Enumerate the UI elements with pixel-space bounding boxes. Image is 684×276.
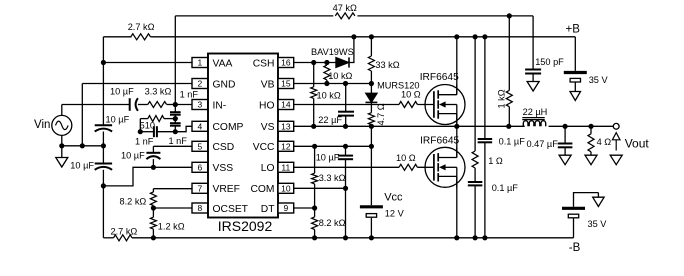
wire Q1 source to VS xyxy=(456,114,458,127)
node bottom rail / 1.2k xyxy=(151,235,156,240)
wire +B rail drop to battery xyxy=(574,37,576,71)
pin name VS xyxy=(261,122,275,133)
svg-text:8: 8 xyxy=(197,203,202,213)
pin box 4 (COMP) xyxy=(192,121,208,131)
svg-text:11: 11 xyxy=(281,163,290,173)
svg-text:IRS2092: IRS2092 xyxy=(218,218,273,234)
wire LO gate lead xyxy=(417,166,434,168)
wire feedback vertical to IN- node xyxy=(174,16,176,105)
label MURS120 xyxy=(377,81,419,91)
svg-text:35 V: 35 V xyxy=(588,219,608,229)
svg-text:Vout: Vout xyxy=(625,136,650,150)
svg-text:IN-: IN- xyxy=(213,100,227,111)
label 1 nF comp lower xyxy=(169,136,188,146)
node bottom rail / DT divider xyxy=(312,235,317,240)
op-amp U1 IRS2092 body xyxy=(208,54,278,218)
svg-text:3.3 kΩ: 3.3 kΩ xyxy=(145,86,172,96)
diode D MURS120 xyxy=(366,93,378,102)
wire Q2 source to -B rail xyxy=(456,176,458,237)
wire -B ground stem xyxy=(597,193,599,198)
capacitor C 22uF bootstrap xyxy=(338,112,354,116)
svg-text:33 kΩ: 33 kΩ xyxy=(375,60,399,70)
pin box 6 (VSS) xyxy=(192,162,208,172)
wire Q2 drain to VS xyxy=(456,126,458,157)
wire C2 link xyxy=(174,119,176,124)
svg-text:10 kΩ: 10 kΩ xyxy=(328,71,352,81)
svg-text:COM: COM xyxy=(250,184,274,195)
svg-text:COMP: COMP xyxy=(213,122,244,133)
capacitor C 10uF CSD xyxy=(146,153,160,159)
svg-text:1: 1 xyxy=(197,58,202,68)
svg-text:3.3 kΩ: 3.3 kΩ xyxy=(319,173,346,183)
wire 8.2k to OCSET node xyxy=(152,206,154,209)
transistor Q1 IRF6645 high-side xyxy=(425,85,465,125)
battery -B 35V xyxy=(562,208,585,218)
label 510 xyxy=(140,121,155,131)
wire DT pin 9 lead xyxy=(294,207,315,209)
capacitor C 10uF input coupling xyxy=(130,98,138,111)
node VCC / DT divider xyxy=(312,144,317,149)
pin number 12 xyxy=(281,142,291,152)
svg-text:LO: LO xyxy=(261,163,275,174)
capacitor C 10uF VCC xyxy=(338,156,353,160)
node COM junction xyxy=(343,186,348,191)
svg-text:-B: -B xyxy=(569,242,581,254)
svg-text:Vcc: Vcc xyxy=(384,191,403,203)
pin number 3 xyxy=(197,100,202,110)
wire divider top xyxy=(314,146,316,173)
node VS / 4.7R xyxy=(369,124,374,129)
svg-text:150 pF: 150 pF xyxy=(535,57,564,67)
label IRF6645 xyxy=(420,135,459,146)
wire 150pF drop xyxy=(532,16,534,70)
node bottom rail / COM xyxy=(343,235,348,240)
svg-text:+B: +B xyxy=(566,24,581,36)
label 1 nF comp upper xyxy=(180,89,199,99)
label 1 nF series xyxy=(135,136,154,146)
wire left rail mid xyxy=(102,132,104,164)
node output / 0.47uF xyxy=(563,124,568,129)
label IRS2092 xyxy=(218,218,273,234)
pin name CSD xyxy=(213,142,235,153)
wire +B rail main segment xyxy=(151,36,576,38)
pin number 5 xyxy=(197,142,202,152)
source Vin sine generator xyxy=(52,115,72,135)
wire VSS pin 6 lead xyxy=(153,166,192,168)
label 2.7 kOhm bottom xyxy=(111,227,138,237)
node VB / bootstrap cap xyxy=(343,81,348,86)
label IRF6645 xyxy=(420,72,459,83)
label 3.3 kOhm DT xyxy=(319,173,346,183)
svg-text:1 nF: 1 nF xyxy=(135,136,154,146)
wire VB pin 15 lead xyxy=(294,83,372,85)
svg-text:10 µF: 10 µF xyxy=(70,160,94,170)
resistor R 47 kOhm xyxy=(335,13,355,19)
label 3.3 kOhm input xyxy=(145,86,172,96)
svg-text:35 V: 35 V xyxy=(589,75,609,85)
wire VAA-to-+B rail left segment xyxy=(103,36,131,38)
svg-text:8.2 kΩ: 8.2 kΩ xyxy=(319,218,346,228)
label 10 uF VCC xyxy=(316,153,340,163)
svg-text:DT: DT xyxy=(261,204,275,215)
svg-text:9: 9 xyxy=(283,203,288,213)
label 150 pF xyxy=(535,57,564,67)
wire to series 1nF xyxy=(140,131,154,133)
svg-text:10 Ω: 10 Ω xyxy=(396,153,416,163)
ground -B battery xyxy=(593,197,604,206)
node VS / half-bridge xyxy=(454,124,459,129)
svg-text:4 Ω: 4 Ω xyxy=(597,137,612,147)
pin name VB xyxy=(261,79,275,90)
wire 4 Ohm to ground xyxy=(590,152,592,155)
pin name IN- xyxy=(213,100,227,111)
wire 10k lower to VS row xyxy=(313,98,315,126)
svg-text:8.2 kΩ: 8.2 kΩ xyxy=(120,196,147,206)
svg-text:6: 6 xyxy=(197,163,202,173)
node left rail / input ground row junction xyxy=(101,143,106,148)
resistor R 8.2 kOhm DT xyxy=(312,217,318,230)
wire VCC cap upper lead xyxy=(345,146,347,155)
label 0.47 uF xyxy=(527,139,559,149)
node +B rail / decoupling cap xyxy=(482,34,487,39)
wire bootstrap cap upper lead xyxy=(345,84,347,112)
node series cap left xyxy=(138,129,143,134)
wire GND pin 2 lead xyxy=(82,83,192,85)
label 22 uH xyxy=(523,107,548,117)
battery +B 35V xyxy=(564,73,587,83)
resistor R 10 kOhm CSH-VS upper lead xyxy=(311,87,317,99)
label 33 kOhm xyxy=(375,60,399,70)
label Vout xyxy=(625,136,650,150)
svg-text:15: 15 xyxy=(281,79,291,89)
svg-text:5: 5 xyxy=(197,142,202,152)
svg-text:47 kΩ: 47 kΩ xyxy=(333,3,357,13)
wire top feedback rail right segment xyxy=(357,15,533,17)
resistor R 510 xyxy=(148,116,164,122)
svg-text:3: 3 xyxy=(197,100,202,110)
svg-text:VCC: VCC xyxy=(253,142,275,153)
pin box 10 (COM) xyxy=(278,183,294,193)
pin box 1 (VAA) xyxy=(192,58,208,68)
pin box 15 (VB) xyxy=(278,79,294,89)
svg-text:0.1 µF: 0.1 µF xyxy=(492,183,519,193)
pin number 6 xyxy=(197,163,202,173)
label 35 V (-B) xyxy=(588,219,608,229)
node VS / 10k xyxy=(311,124,316,129)
wire coupling cap to 3.3k xyxy=(138,104,148,106)
node VCC / battery column xyxy=(369,144,374,149)
wire BAV19WS cathode to rail xyxy=(349,37,354,63)
pin box 9 (DT) xyxy=(278,203,294,213)
resistor R 1 Ohm snubber xyxy=(472,151,478,168)
resistor R 10 Ohm LO gate xyxy=(399,164,417,170)
node VCC / 10uF xyxy=(343,144,348,149)
ground 150pF xyxy=(527,82,539,92)
pin name COM xyxy=(250,184,274,195)
label 22 uF xyxy=(318,115,342,125)
capacitor C 150pF xyxy=(525,70,541,74)
svg-text:BAV19WS: BAV19WS xyxy=(311,47,354,57)
node +B rail / snubber xyxy=(473,34,478,39)
svg-text:12 V: 12 V xyxy=(385,208,405,218)
node bottom rail / Q2 source xyxy=(454,235,459,240)
transistor Q2 IRF6645 low-side xyxy=(425,147,465,187)
wire OCSET pin 8 lead xyxy=(153,207,192,209)
label Vin xyxy=(34,119,50,131)
pin number 14 xyxy=(281,100,291,110)
pin number 7 xyxy=(197,184,202,194)
wire C1 to mid node xyxy=(174,115,176,119)
pin number 10 xyxy=(281,184,291,194)
wire MURS120 to 4.7R xyxy=(370,102,372,112)
pin name CSH xyxy=(253,58,275,69)
node bottom rail / snubber xyxy=(473,235,478,240)
wire VS pin 13 lead xyxy=(294,125,525,127)
resistor R 10 kOhm CSH-VB xyxy=(324,65,330,80)
wire Vin bottom lead xyxy=(61,135,63,145)
label 12 V xyxy=(385,208,405,218)
node VB / 33k / MURS120 xyxy=(369,81,374,86)
wire snubber top xyxy=(474,37,476,151)
node VS / 1k feedback xyxy=(506,124,511,129)
pin name HO xyxy=(259,100,274,111)
wire decoupling top xyxy=(484,37,486,139)
pin name GND xyxy=(213,79,236,90)
ground Vin xyxy=(56,158,68,168)
label 1 Ohm xyxy=(488,156,503,166)
wire 150pF to ground xyxy=(532,74,534,82)
svg-text:1 Ω: 1 Ω xyxy=(488,156,503,166)
svg-text:16: 16 xyxy=(281,58,291,68)
pin box 13 (VS) xyxy=(278,121,294,131)
svg-text:510: 510 xyxy=(140,121,155,131)
pin number 8 xyxy=(197,203,202,213)
capacitor C 0.1uF snubber xyxy=(468,182,483,185)
wire 1.2k to bottom rail xyxy=(152,229,154,238)
label -B xyxy=(569,242,581,254)
svg-text:GND: GND xyxy=(213,79,236,90)
svg-text:22 µH: 22 µH xyxy=(523,107,548,117)
wire 510 corner down xyxy=(139,119,141,132)
wire Vcc battery to bottom rail xyxy=(370,218,372,238)
wire 3.3k to IN- node xyxy=(167,104,176,106)
svg-text:CSH: CSH xyxy=(253,58,275,69)
resistor R 1.2 kOhm xyxy=(150,217,156,229)
svg-text:Vin: Vin xyxy=(34,119,50,131)
ground Vout reference xyxy=(610,155,622,165)
svg-text:2.7 kΩ: 2.7 kΩ xyxy=(111,227,138,237)
resistor R 2.7 kOhm (bottom) xyxy=(114,235,133,241)
label 47 kOhm xyxy=(333,3,357,13)
pin name COMP xyxy=(213,122,244,133)
wire HO gate lead xyxy=(417,104,434,106)
node bottom rail / Vcc xyxy=(369,235,374,240)
pin number 9 xyxy=(283,203,288,213)
wire left rail lower xyxy=(102,170,104,238)
svg-text:10 µF: 10 µF xyxy=(110,86,134,96)
node IN- xyxy=(173,102,178,107)
node OCSET xyxy=(151,205,156,210)
wire bottom rail left segment xyxy=(103,237,113,239)
pin box 3 (IN-) xyxy=(192,100,208,110)
node rail / bootstrap diode xyxy=(351,34,356,39)
wire HO pin 14 lead xyxy=(294,104,399,106)
svg-text:12: 12 xyxy=(281,142,291,152)
wire 1k bottom xyxy=(508,107,510,127)
label 4 Ohm xyxy=(597,137,612,147)
wire Vin top lead xyxy=(61,105,63,116)
svg-text:10 kΩ: 10 kΩ xyxy=(317,90,341,100)
wire bootstrap cap lower lead xyxy=(345,116,347,127)
wire CSD pin 5 lead xyxy=(153,145,192,147)
svg-text:10: 10 xyxy=(281,184,291,194)
resistor R 4 Ohm load xyxy=(588,134,594,152)
pin number 16 xyxy=(281,58,291,68)
pin name OCSET xyxy=(213,204,249,215)
svg-text:2.7 kΩ: 2.7 kΩ xyxy=(128,22,155,32)
wire 33k to MURS node xyxy=(370,71,372,93)
svg-text:10 µF: 10 µF xyxy=(316,153,340,163)
label 0.1 uF decoupling xyxy=(499,137,526,147)
diode D BAV19WS xyxy=(336,57,349,67)
label 2.7 kOhm top xyxy=(128,22,155,32)
wire CSD cap to VSS row xyxy=(152,159,154,167)
wire VCC pin 12 lead xyxy=(294,145,372,147)
label +B xyxy=(566,24,581,36)
node VAA junction xyxy=(101,60,106,65)
capacitor C 10uF VAA lower xyxy=(95,164,112,170)
svg-text:VAA: VAA xyxy=(213,58,233,69)
label 10 Ohm LO xyxy=(396,153,416,163)
pin name VAA xyxy=(213,58,233,69)
pin box 5 (CSD) xyxy=(192,141,208,151)
pin number 1 xyxy=(197,58,202,68)
label 0.1 uF snubber xyxy=(492,183,519,193)
svg-text:VSS: VSS xyxy=(213,163,234,174)
node left rail VSS tap xyxy=(101,183,106,188)
label 8.2 kOhm DT xyxy=(319,218,346,228)
wire -B rail rise to battery xyxy=(573,218,575,238)
resistor R 3.3 kOhm input xyxy=(148,102,167,108)
node VSS junction xyxy=(151,165,156,170)
pin box 7 (VREF) xyxy=(192,183,208,193)
svg-text:0.1 µF: 0.1 µF xyxy=(499,137,526,147)
svg-text:22 µF: 22 µF xyxy=(318,115,342,125)
pin number 13 xyxy=(281,122,291,132)
label 10 kOhm upper xyxy=(328,71,352,81)
wire +B battery to ground xyxy=(574,82,576,92)
wire 1k top xyxy=(508,16,510,91)
node DT xyxy=(312,205,317,210)
pin box 11 (LO) xyxy=(278,162,294,172)
svg-text:10 µF: 10 µF xyxy=(121,151,145,161)
wire VSS return jog to left rail xyxy=(103,167,153,186)
node VS / bootstrap cap xyxy=(343,124,348,129)
wire CSH pin 16 lead xyxy=(294,62,336,64)
pin box 2 (GND) xyxy=(192,79,208,89)
wire COM pin 10 lead xyxy=(294,187,346,189)
svg-text:VB: VB xyxy=(261,79,275,90)
svg-text:OCSET: OCSET xyxy=(213,204,249,215)
wire left rail upper (VAA column) xyxy=(102,37,104,125)
label 10 uF CSD xyxy=(121,151,145,161)
node comp mid xyxy=(173,116,178,121)
capacitor C 0.47uF xyxy=(558,144,573,148)
svg-text:IRF6645: IRF6645 xyxy=(420,72,459,83)
wire CSD cap drop xyxy=(152,146,154,153)
label 1 kOhm (rotated) xyxy=(496,89,506,108)
wire 4 Ohm top lead xyxy=(590,126,592,134)
node bottom rail / decoupling xyxy=(482,235,487,240)
node rail / 33k xyxy=(369,34,374,39)
wire 0.47uF to ground xyxy=(564,147,566,155)
resistor R 10 Ohm HO gate xyxy=(399,102,417,108)
wire input common row xyxy=(62,145,104,147)
wire LO pin 11 lead xyxy=(294,166,399,168)
label Vcc xyxy=(384,191,403,203)
wire C2 to comp bottom node xyxy=(174,126,176,132)
node +B rail / Q1 drain xyxy=(454,34,459,39)
wire decoupling bottom xyxy=(484,142,486,238)
capacitor C 1nF comp upper xyxy=(170,112,181,115)
terminal output circle xyxy=(613,123,619,129)
svg-text:VS: VS xyxy=(261,122,275,133)
pin box 16 (CSH) xyxy=(278,58,294,68)
capacitor C 10uF VAA upper xyxy=(95,125,112,131)
wire input row to coupling cap xyxy=(62,104,130,106)
pin number 4 xyxy=(197,122,202,132)
svg-text:0.47 µF: 0.47 µF xyxy=(527,139,559,149)
ground 0.47uF xyxy=(559,155,571,165)
wire comp node to pin 4 xyxy=(175,126,192,131)
label BAV19WS xyxy=(311,47,354,57)
resistor R 33 kOhm xyxy=(368,56,374,71)
wire mid node to 510 xyxy=(164,118,175,120)
svg-text:10 µF: 10 µF xyxy=(106,114,130,124)
label 10 kOhm lower xyxy=(317,90,341,100)
svg-text:1 nF: 1 nF xyxy=(180,89,199,99)
wire 1 Ohm to 0.1uF xyxy=(474,168,476,182)
node VB / 10k xyxy=(324,81,329,86)
svg-text:VREF: VREF xyxy=(213,184,240,195)
node comp bottom xyxy=(173,129,178,134)
ground 4 Ohm load xyxy=(585,155,597,165)
wire IN- node to pin 3 xyxy=(175,104,192,106)
label 8.2 kOhm left xyxy=(120,196,147,206)
wire 8.2k DT to bottom rail xyxy=(314,230,316,238)
wire VAA pin 1 lead xyxy=(103,62,192,64)
label 10 uF (VAA upper cap) xyxy=(106,114,130,124)
wire inductor to output xyxy=(549,125,614,127)
arrow Vout xyxy=(612,133,620,151)
svg-text:CSD: CSD xyxy=(213,142,235,153)
wire 510 left drop xyxy=(140,118,148,120)
wire OCSET to 1.2k xyxy=(152,208,154,217)
wire VREF pin 7 lead xyxy=(153,188,192,190)
wire VREF corner xyxy=(152,189,154,192)
resistor R 8.2 kOhm VREF xyxy=(150,192,156,206)
svg-text:4.7 Ω: 4.7 Ω xyxy=(376,103,386,125)
inductor L 22uH xyxy=(522,118,545,127)
wire Q1 drain to +B rail xyxy=(456,37,458,95)
capacitor C 1nF comp lower xyxy=(170,123,181,126)
pin name VCC xyxy=(253,142,275,153)
wire DT to 8.2k xyxy=(314,208,316,217)
wire series 1nF to comp node xyxy=(157,131,175,133)
wire top feedback rail (47k rail) xyxy=(175,15,333,17)
label 4.7 Ohm (rotated) xyxy=(376,103,386,125)
wire bottom -B rail xyxy=(132,237,574,239)
